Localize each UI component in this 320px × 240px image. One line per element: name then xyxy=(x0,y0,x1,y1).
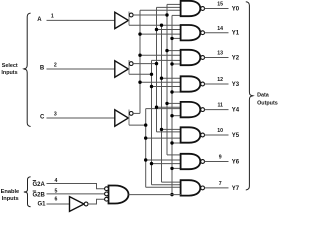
wire Y5 input stub xyxy=(162,128,181,130)
wire Y6 input stub xyxy=(152,163,181,165)
wire Y2 output xyxy=(205,57,229,59)
wire Y4 input stub xyxy=(172,115,181,117)
wire Y0 input stub xyxy=(167,3,181,5)
rail C vertical xyxy=(145,109,147,188)
wire Y5 input stub xyxy=(157,131,181,133)
junction xyxy=(160,128,163,131)
junction xyxy=(144,136,147,139)
wire Y0 input stub xyxy=(172,14,181,16)
wire Y7 input stub xyxy=(162,181,181,183)
wire input B xyxy=(47,68,115,70)
junction xyxy=(165,102,168,105)
junction xyxy=(155,106,158,109)
wire Y4 output xyxy=(205,109,229,111)
svg-text:10: 10 xyxy=(217,128,223,134)
svg-text:G2B: G2B xyxy=(33,193,46,199)
buffer B (true/complement outputs) xyxy=(115,60,129,77)
enable AND gate xyxy=(109,186,129,204)
svg-text:C: C xyxy=(40,115,45,121)
junction xyxy=(165,13,168,16)
NAND gate Y1 xyxy=(181,25,201,40)
wire Y0 input stub xyxy=(157,6,181,8)
wire Abar feed xyxy=(133,14,167,16)
wire Y3 output xyxy=(205,83,229,85)
junction xyxy=(144,158,147,161)
bubble B complement output xyxy=(129,62,133,66)
wire Y3 input stub xyxy=(162,77,181,79)
bubble Y3 output xyxy=(201,82,205,86)
bubble Y0 output xyxy=(201,7,205,11)
rail W vertical xyxy=(171,15,173,194)
wire Y0 input stub xyxy=(140,9,181,11)
inverter G1 xyxy=(70,197,85,212)
svg-text:Y1: Y1 xyxy=(232,31,240,37)
svg-text:Inputs: Inputs xyxy=(2,196,19,202)
wire Y2 input stub xyxy=(172,63,181,65)
wire Y1 output xyxy=(205,32,229,34)
wire Y3 input stub xyxy=(152,86,181,88)
bubble Y5 output xyxy=(201,133,205,137)
junction xyxy=(170,62,173,65)
wire Y1 input stub xyxy=(157,29,181,31)
wire Y6 input stub xyxy=(172,167,181,169)
wire Y0 output xyxy=(205,8,229,10)
wire A feed xyxy=(129,24,181,26)
junction xyxy=(170,37,173,40)
select inputs brace xyxy=(24,13,31,126)
wire Y6 input stub xyxy=(167,154,181,156)
bubble Y1 output xyxy=(201,31,205,35)
enable inputs brace xyxy=(24,177,31,207)
wire Y2 input stub xyxy=(152,59,181,61)
svg-text:1: 1 xyxy=(51,14,54,20)
wire C feed xyxy=(129,124,146,126)
bubble G1 inverter output xyxy=(84,202,88,206)
svg-text:G1: G1 xyxy=(38,201,47,207)
label Enable Inputs xyxy=(1,189,20,202)
wire Y6 input stub xyxy=(146,159,181,161)
buffer C (true/complement outputs) xyxy=(115,110,129,127)
svg-text:3: 3 xyxy=(54,111,57,117)
svg-text:Enable: Enable xyxy=(1,189,20,195)
wire Y6 output xyxy=(205,161,229,163)
svg-text:Y6: Y6 xyxy=(232,159,240,165)
NAND gate Y2 xyxy=(181,50,201,65)
wire Y3 input stub xyxy=(140,81,181,83)
bubble enable gate input xyxy=(105,187,109,191)
svg-text:12: 12 xyxy=(217,77,223,83)
wire Y1 input stub xyxy=(172,37,181,39)
NAND gate Y7 xyxy=(181,180,201,195)
junction xyxy=(170,114,173,117)
wire Bbar feed xyxy=(133,63,156,65)
bubble Y6 output xyxy=(201,160,205,164)
junction xyxy=(144,123,147,126)
svg-text:7: 7 xyxy=(219,181,222,187)
data outputs brace xyxy=(246,2,253,190)
svg-text:Y5: Y5 xyxy=(232,133,240,139)
wire B feed xyxy=(129,73,152,75)
wire Y5 output xyxy=(205,134,229,136)
bubble Y2 output xyxy=(201,56,205,60)
svg-text:Y3: Y3 xyxy=(232,82,240,88)
bubble C complement output xyxy=(129,112,133,116)
junction xyxy=(170,90,173,93)
junction xyxy=(170,167,173,170)
label G2B (active low, overbar) xyxy=(33,191,46,199)
svg-text:15: 15 xyxy=(217,2,223,8)
svg-text:Y7: Y7 xyxy=(232,186,240,192)
junction xyxy=(160,24,163,27)
rail Bbar vertical xyxy=(156,7,158,131)
NAND gate Y6 xyxy=(181,154,201,169)
wire Y7 input stub xyxy=(146,186,181,188)
label G2A (active low, overbar) xyxy=(33,181,46,189)
buffer A (true/complement outputs) xyxy=(115,12,129,29)
junction xyxy=(138,32,141,35)
wire G2A xyxy=(47,184,105,189)
svg-text:11: 11 xyxy=(217,103,223,109)
wire Cbar feed xyxy=(133,112,140,114)
wire Y5 input stub xyxy=(172,142,181,144)
junction xyxy=(138,81,141,84)
junction xyxy=(155,28,158,31)
wire G1 xyxy=(47,203,70,205)
svg-text:2: 2 xyxy=(54,62,57,68)
junction xyxy=(170,193,173,196)
bubble enable gate input xyxy=(105,192,109,196)
rail A vertical xyxy=(161,25,163,182)
wire Y1 input stub xyxy=(140,33,181,35)
svg-text:Y2: Y2 xyxy=(232,55,240,61)
wire Y4 input stub xyxy=(146,108,181,110)
rail Abar vertical xyxy=(166,4,168,155)
wire G1 inverted to enable gate xyxy=(88,199,105,204)
svg-text:9: 9 xyxy=(219,155,222,161)
svg-text:Outputs: Outputs xyxy=(257,100,278,106)
junction xyxy=(170,141,173,144)
label G1 xyxy=(38,201,47,207)
bubble A complement output xyxy=(129,13,133,17)
NAND gate Y3 xyxy=(181,76,201,91)
wire Y4 input stub xyxy=(167,102,181,104)
NAND gate Y0 xyxy=(181,1,201,16)
junction xyxy=(165,49,168,52)
svg-text:Select: Select xyxy=(2,63,18,69)
wire input A xyxy=(47,19,115,21)
NAND gate Y5 xyxy=(181,127,201,142)
wire Y2 input stub xyxy=(140,54,181,56)
svg-text:Y4: Y4 xyxy=(232,108,240,114)
label Select Inputs xyxy=(1,63,17,76)
wire Y5 input stub xyxy=(146,137,181,139)
junction xyxy=(150,85,153,88)
bubble enable gate input xyxy=(105,197,109,201)
wire Y3 input stub xyxy=(172,91,181,93)
rail B vertical xyxy=(151,60,153,184)
junction xyxy=(150,162,153,165)
junction xyxy=(155,62,158,65)
junction xyxy=(160,77,163,80)
wire enable output to Y7 and W rail xyxy=(129,194,181,196)
svg-text:Inputs: Inputs xyxy=(1,70,17,76)
junction xyxy=(150,73,153,76)
wire Y7 input stub xyxy=(152,184,181,186)
svg-text:A: A xyxy=(37,17,42,23)
label Data Outputs xyxy=(257,92,278,106)
svg-text:Data: Data xyxy=(257,92,270,98)
bubble Y7 output xyxy=(201,186,205,190)
wire Y2 input stub xyxy=(167,50,181,52)
svg-text:14: 14 xyxy=(217,26,223,32)
NAND gate Y4 xyxy=(181,102,201,117)
wire Y7 output xyxy=(205,187,229,189)
svg-text:B: B xyxy=(40,66,45,72)
wire Y4 input stub xyxy=(157,106,181,108)
svg-text:Y0: Y0 xyxy=(232,6,240,12)
svg-text:G2A: G2A xyxy=(33,182,46,188)
svg-text:6: 6 xyxy=(55,197,58,203)
wire input C xyxy=(47,117,115,119)
junction xyxy=(138,54,141,57)
rail Cbar vertical xyxy=(139,10,141,113)
svg-text:13: 13 xyxy=(217,51,223,57)
wire G2B xyxy=(47,193,105,195)
bubble Y4 output xyxy=(201,108,205,112)
